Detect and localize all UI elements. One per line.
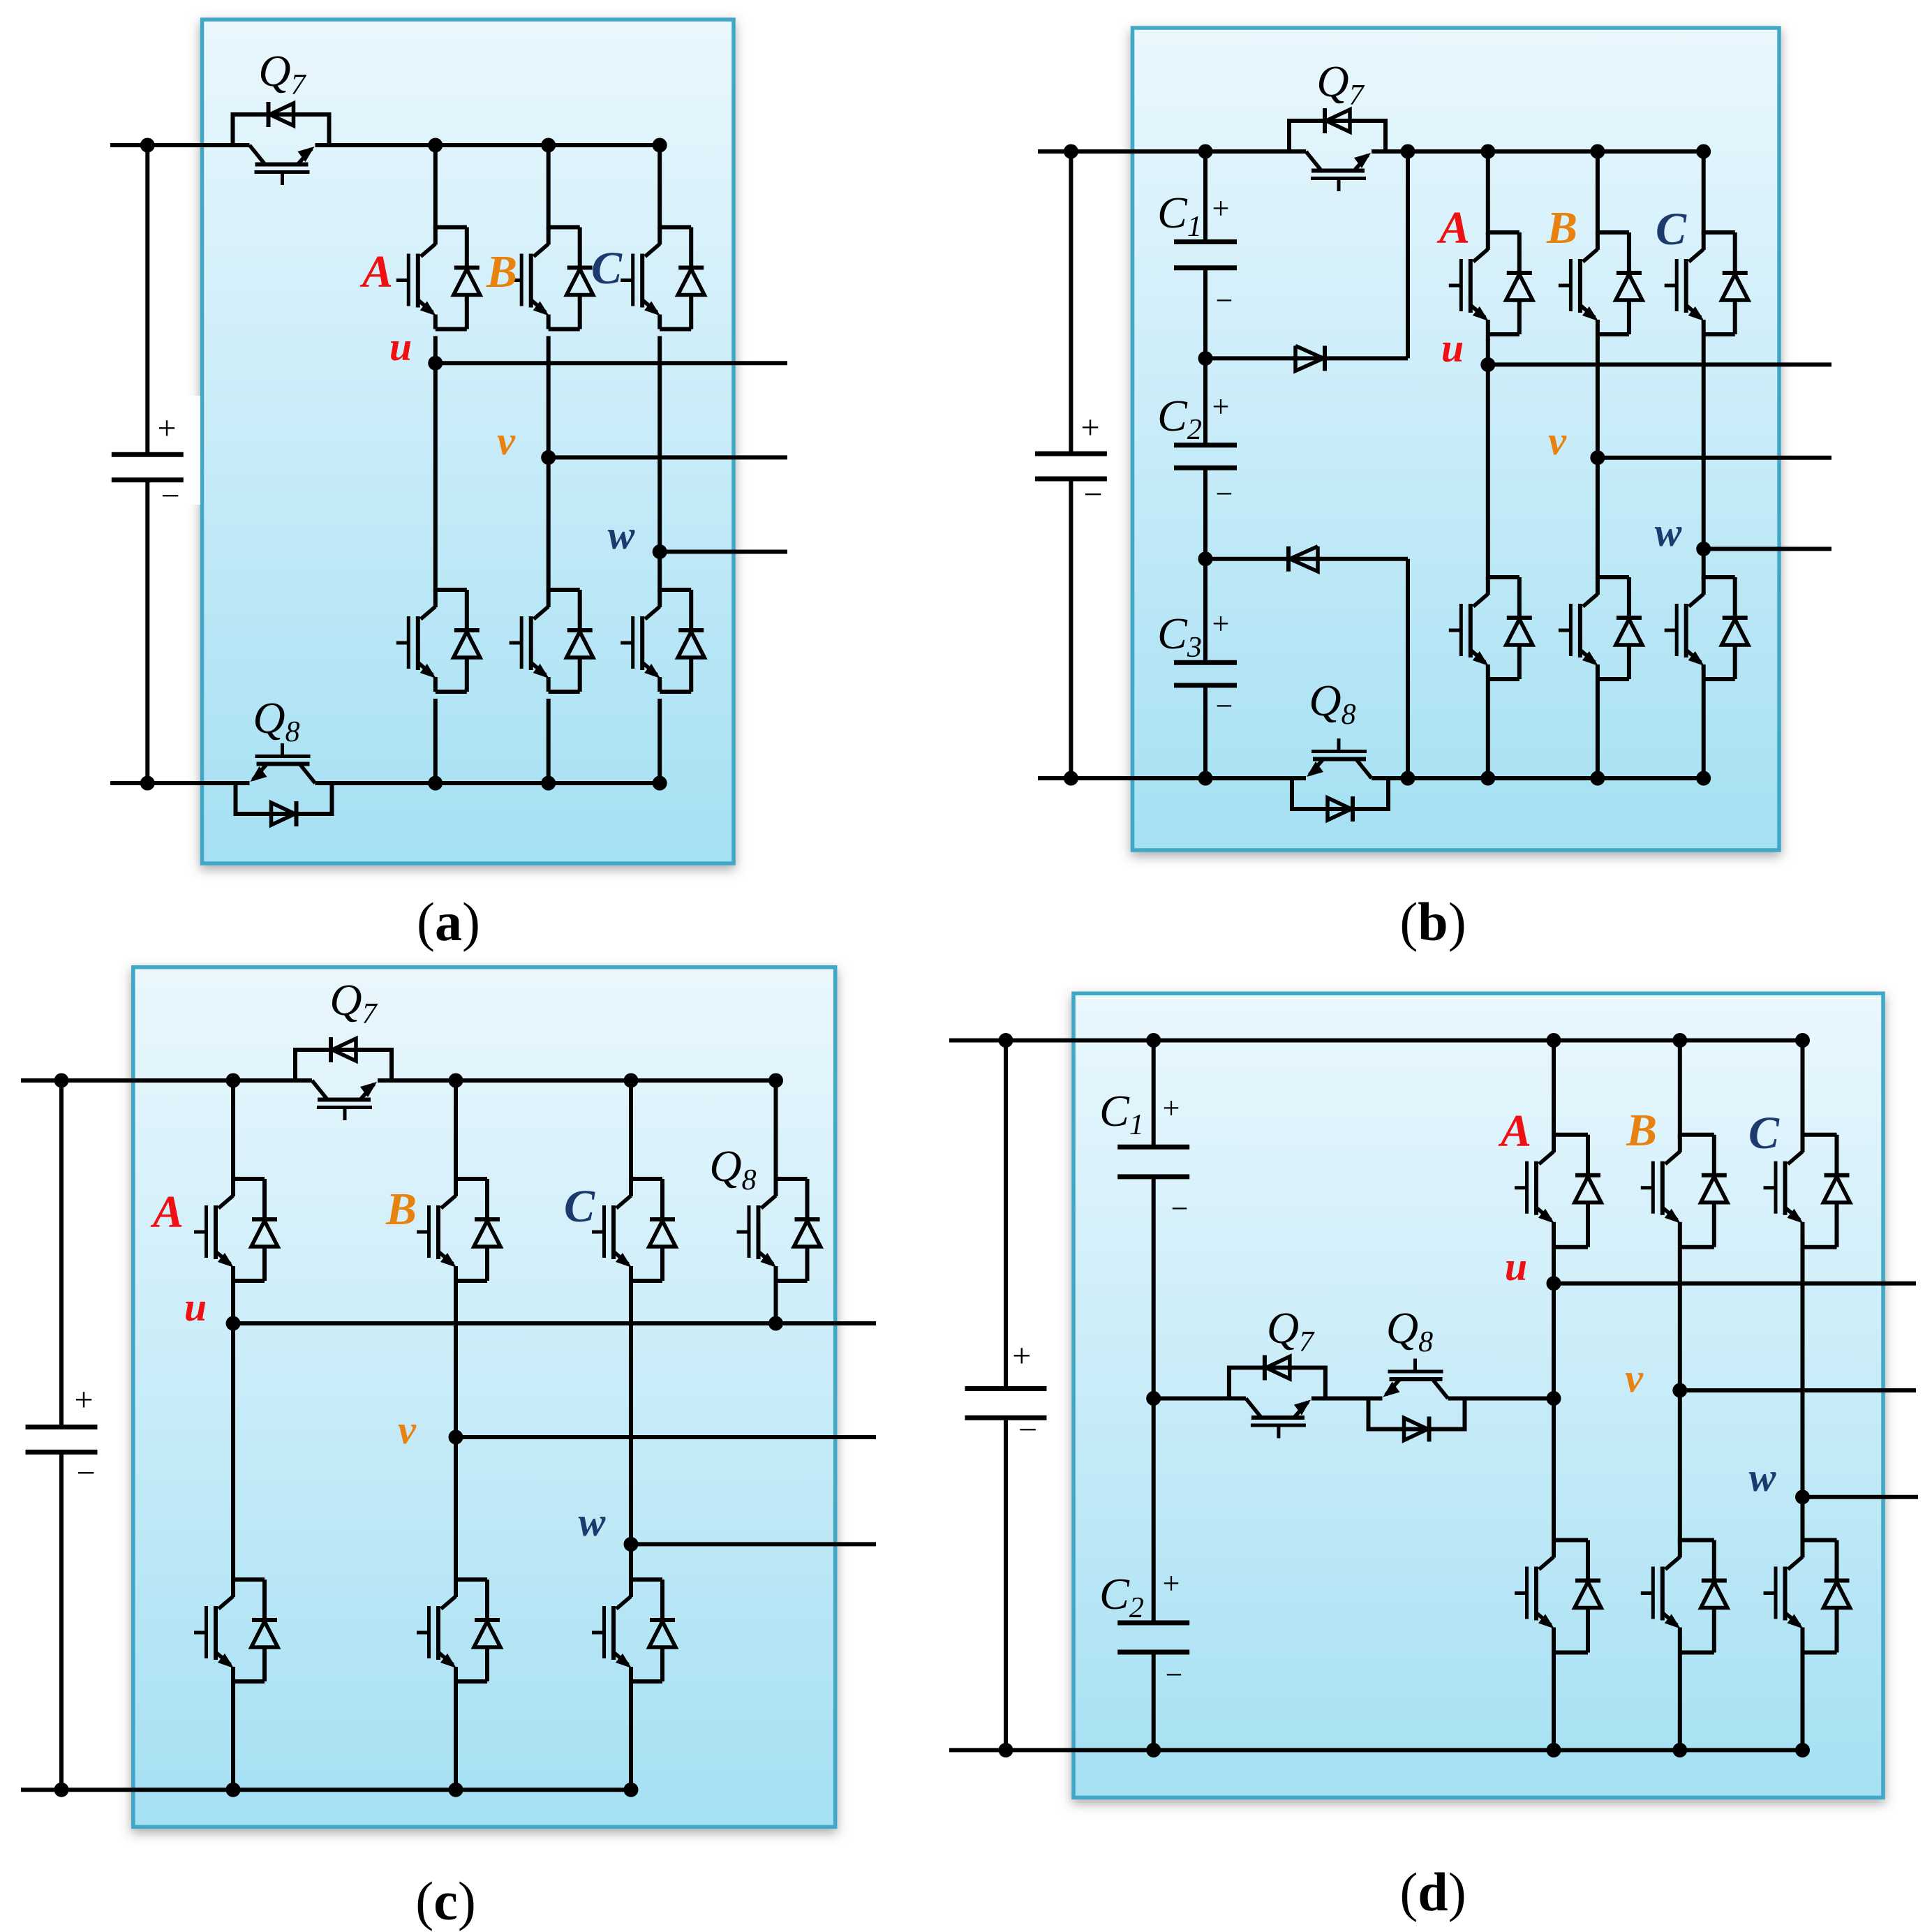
wire: panel (c) DC-link capacitor leads	[59, 1080, 64, 1427]
svg-text:u: u	[389, 324, 412, 369]
diode D1 of panel (b)	[1323, 345, 1327, 371]
svg-text:C: C	[591, 243, 623, 294]
svg-text:C: C	[1748, 1108, 1780, 1159]
capacitor C1 of panel (d)	[1152, 1041, 1156, 1147]
IGBT cell C top of panel (c)	[631, 1177, 662, 1181]
diode D1 wire of panel (b)	[1205, 356, 1408, 360]
diode D2 wire of panel (b)	[1205, 557, 1408, 561]
wire: panel (b) output v	[1598, 456, 1831, 460]
junction dots on panel (b) rails	[1064, 144, 1078, 159]
transistor Q7 of panel (d)	[1229, 1368, 1325, 1399]
wire: panel (d) output w	[1803, 1495, 1919, 1499]
IGBT cell B top of panel (d)	[1680, 1133, 1714, 1137]
wire: panel (b) DC-link capacitor leads	[1069, 151, 1073, 454]
capacitor DC-link of panel (b)	[1035, 452, 1107, 456]
IGBT cell C top of panel (b)	[1704, 230, 1735, 235]
junction dots on panel (c) rails	[54, 1073, 69, 1088]
wire: panel (c) positive DC rail	[21, 1078, 312, 1083]
panel (a) background box	[202, 20, 734, 863]
wire: panel (b) phase leg verticals upper	[1486, 151, 1490, 235]
svg-text:A: A	[359, 246, 393, 297]
svg-text:B: B	[486, 246, 517, 297]
capacitor C1 of panel (b)	[1203, 151, 1207, 242]
node w of panel (c)	[624, 1537, 639, 1552]
svg-text:(b): (b)	[1399, 891, 1466, 952]
transistor Q8 of panel (b)	[1292, 778, 1388, 809]
wire: panel (a) positive DC rail	[110, 143, 250, 147]
IGBT cell B top of panel (c)	[456, 1177, 487, 1181]
svg-text:−: −	[1083, 476, 1102, 513]
diode D2 of panel (b)	[1286, 547, 1291, 572]
IGBT cell B top of panel (a)	[549, 225, 580, 230]
wire: panel (a) negative DC rail	[110, 781, 250, 785]
wire: panel (b) output w	[1704, 547, 1831, 551]
wire: panel (c) phase leg verticals upper	[231, 1080, 235, 1181]
wire: panel (c) output w	[631, 1542, 876, 1546]
capacitor DC-link of panel (a)	[112, 452, 184, 457]
svg-text:A: A	[150, 1187, 184, 1238]
svg-text:+: +	[1080, 409, 1099, 446]
wire: panel (b) midsection verticals	[1486, 334, 1490, 579]
junction dots on panel (a) rails	[140, 138, 155, 153]
wire: panel (c) midsection verticals	[231, 1281, 235, 1582]
transistor Q8 of panel (d)	[1369, 1399, 1465, 1429]
svg-text:v: v	[398, 1407, 417, 1452]
svg-text:B: B	[1626, 1105, 1657, 1156]
svg-text:w: w	[1655, 510, 1682, 555]
wire: panel (a) midsection verticals	[433, 336, 438, 593]
node C1-C2 junction of panel (b)	[1198, 351, 1213, 366]
IGBT cell A top of panel (b)	[1488, 230, 1519, 235]
transistor Q8 of panel (a)	[236, 783, 332, 814]
svg-text:−: −	[1216, 283, 1233, 318]
capacitor DC-link of panel (c)	[26, 1425, 98, 1429]
node u of panel (d)	[1547, 1276, 1561, 1291]
svg-text:u: u	[184, 1284, 207, 1330]
svg-text:v: v	[497, 418, 516, 463]
wire: panel (c) output u	[233, 1321, 876, 1325]
svg-text:B: B	[385, 1184, 417, 1235]
svg-text:−: −	[76, 1455, 95, 1492]
transistor Q7 of panel (c)	[295, 1050, 392, 1080]
wire: panel (c) Q8 leg lower vertical	[774, 1281, 778, 1323]
node v of panel (a)	[541, 450, 556, 465]
svg-text:−: −	[1216, 477, 1233, 511]
capacitor C2 of panel (b)	[1203, 358, 1207, 445]
wire: panel (d) phase leg verticals upper	[1552, 1041, 1556, 1137]
wire: panel (d) midsection verticals	[1552, 1247, 1556, 1543]
svg-text:w: w	[579, 1499, 606, 1545]
node u of panel (a)	[428, 356, 443, 371]
wire: panel (d) negative DC rail	[949, 1748, 1803, 1752]
wire: panel (c) negative DC rail	[21, 1788, 631, 1792]
node of Q8 emitter on u line panel (c)	[768, 1316, 783, 1331]
node v of panel (b)	[1590, 450, 1605, 465]
wire: panel (d) output v	[1680, 1388, 1916, 1392]
wire: panel (b) negative DC rail	[1038, 776, 1306, 780]
IGBT cell A top of panel (c)	[233, 1177, 265, 1181]
IGBT cell B bottom of panel (c)	[456, 1577, 487, 1582]
IGBT cell B bottom of panel (b)	[1598, 575, 1629, 579]
IGBT cell A bottom of panel (d)	[1554, 1538, 1588, 1543]
svg-text:C: C	[564, 1181, 595, 1232]
panel (d) background box	[1073, 993, 1883, 1797]
svg-text:(c): (c)	[415, 1871, 476, 1931]
wire: panel (b) output u	[1488, 362, 1831, 366]
svg-text:+: +	[1212, 607, 1230, 641]
wire: panel (a) phase leg verticals lower	[433, 699, 438, 783]
node v of panel (d)	[1672, 1383, 1687, 1398]
svg-text:+: +	[1163, 1566, 1180, 1600]
IGBT cell A top of panel (d)	[1554, 1133, 1588, 1137]
svg-text:w: w	[1749, 1455, 1776, 1500]
svg-text:+: +	[1012, 1337, 1031, 1374]
wire: panel (a) output u	[436, 361, 787, 365]
svg-text:v: v	[1625, 1355, 1644, 1401]
svg-text:−: −	[1018, 1411, 1037, 1448]
IGBT cell C top of panel (a)	[660, 225, 691, 230]
svg-text:C: C	[1656, 204, 1687, 255]
wire: panel (a) output v	[549, 455, 787, 459]
IGBT cell C bottom of panel (b)	[1704, 575, 1735, 579]
wire: panel (d) phase leg verticals lower	[1552, 1653, 1556, 1751]
node u of panel (b)	[1480, 357, 1495, 372]
IGBT cell C bottom of panel (c)	[631, 1577, 662, 1582]
svg-text:+: +	[74, 1381, 93, 1418]
IGBT cell C bottom of panel (d)	[1803, 1538, 1837, 1543]
panel (c) background box	[133, 967, 835, 1827]
svg-text:(a): (a)	[417, 891, 480, 952]
wire: panel (b) phase leg verticals lower	[1486, 679, 1490, 778]
node u of panel (c)	[226, 1316, 241, 1331]
wire: panel (d) output u	[1554, 1281, 1916, 1286]
transistor Q7 of panel (a)	[233, 114, 329, 145]
svg-text:B: B	[1546, 202, 1577, 253]
wire: panel (b) positive DC rail	[1038, 149, 1306, 154]
svg-text:A: A	[1498, 1106, 1531, 1157]
IGBT cell B bottom of panel (d)	[1680, 1538, 1714, 1543]
IGBT cell A bottom of panel (a)	[436, 588, 467, 592]
node w of panel (a)	[653, 544, 667, 559]
panel (b) background box	[1133, 28, 1780, 850]
svg-text:u: u	[1441, 325, 1464, 371]
wire: panel (a) output w	[660, 550, 787, 554]
capacitor DC-link of panel (d)	[965, 1386, 1047, 1391]
node v of panel (c)	[449, 1430, 463, 1445]
transistor Q7 of panel (b)	[1289, 121, 1385, 151]
IGBT cell C bottom of panel (a)	[660, 588, 691, 592]
wire: panel (c) output v	[456, 1435, 876, 1439]
IGBT cell C top of panel (d)	[1803, 1133, 1837, 1137]
svg-text:(d): (d)	[1399, 1862, 1466, 1922]
IGBT cell B bottom of panel (a)	[549, 588, 580, 592]
wire: panel (d) positive DC rail	[949, 1039, 1803, 1043]
svg-text:+: +	[1212, 191, 1230, 225]
svg-text:w: w	[608, 512, 635, 558]
svg-text:−: −	[1166, 1658, 1183, 1692]
wire: panel (a) phase leg verticals upper	[433, 145, 438, 230]
capacitor C3 of panel (b)	[1203, 559, 1207, 663]
svg-text:+: +	[157, 410, 176, 447]
svg-text:+: +	[1163, 1091, 1180, 1125]
node on mid wire at A column panel (d)	[1547, 1391, 1561, 1406]
node w of panel (d)	[1795, 1489, 1810, 1504]
wire: panel (c) phase leg verticals lower	[231, 1679, 235, 1790]
svg-text:A: A	[1436, 202, 1470, 253]
IGBT cell A top of panel (a)	[436, 225, 467, 230]
wire: panel (a) DC-link capacitor leads	[145, 145, 149, 454]
IGBT cell A bottom of panel (b)	[1488, 575, 1519, 579]
svg-text:v: v	[1548, 418, 1567, 463]
node C2-C3 junction of panel (b)	[1198, 551, 1213, 566]
white label patch behind capacitor labels of panel (a)	[105, 396, 200, 505]
node w of panel (b)	[1696, 542, 1711, 556]
svg-text:u: u	[1505, 1244, 1527, 1289]
wire: panel (d) midsection horizontal	[1154, 1397, 1246, 1401]
junction dots on panel (d) rails	[999, 1033, 1013, 1048]
svg-text:−: −	[161, 477, 179, 514]
wire: panel (d) DC-link capacitor leads	[1004, 1041, 1008, 1389]
IGBT cell A bottom of panel (c)	[233, 1577, 265, 1582]
svg-text:−: −	[1171, 1191, 1189, 1226]
capacitor C2 of panel (d)	[1152, 1399, 1156, 1623]
svg-text:+: +	[1212, 389, 1230, 424]
svg-text:−: −	[1216, 689, 1233, 723]
IGBT cell Q8 of panel (c)	[776, 1177, 808, 1181]
IGBT cell B top of panel (b)	[1598, 230, 1629, 235]
node at C1-C2 junction of panel (d)	[1146, 1391, 1161, 1406]
